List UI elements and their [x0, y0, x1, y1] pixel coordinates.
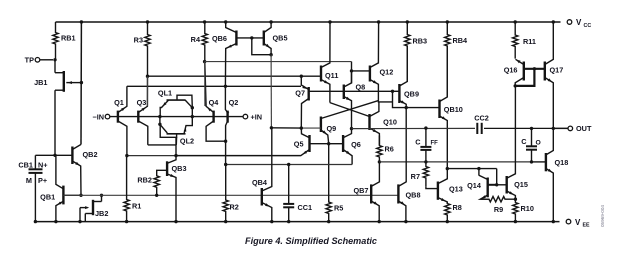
- svg-text:RB4: RB4: [453, 36, 469, 45]
- wire Q16 diode link: [514, 69, 535, 88]
- wire QB6/QB5 base: [236, 36, 263, 39]
- svg-text:R1: R1: [132, 202, 141, 211]
- node Q5/Q6 base: [327, 142, 330, 202]
- svg-text:CC1: CC1: [298, 203, 313, 212]
- transistor QB4: [252, 128, 272, 222]
- transistor QB1: [40, 155, 81, 221]
- svg-text:Q7: Q7: [295, 89, 305, 98]
- wire Q7/Q8 base bus: [309, 90, 393, 92]
- transistor Q1: [114, 86, 127, 155]
- svg-text:RB3: RB3: [413, 37, 428, 46]
- svg-text:R8: R8: [453, 203, 462, 212]
- svg-text:JB2: JB2: [95, 209, 108, 218]
- transistor Q16: [504, 59, 524, 86]
- transistor Q2: [225, 86, 238, 164]
- wire bias bus y195: [63, 194, 398, 196]
- transistor QB5: [264, 22, 288, 55]
- svg-text:R2: R2: [230, 203, 239, 212]
- svg-text:Q11: Q11: [325, 71, 338, 80]
- capacitor CC1: [283, 165, 312, 222]
- svg-text:C: C: [521, 137, 527, 146]
- node R6 bottom: [378, 160, 381, 181]
- wire Q9 base: [301, 127, 321, 129]
- wire VEE rail: [35, 221, 559, 223]
- resistor RB1: [53, 22, 76, 60]
- svg-text:Q2: Q2: [229, 98, 239, 107]
- svg-text:Q18: Q18: [555, 158, 569, 167]
- node QB4 collector top: [270, 126, 302, 129]
- svg-text:TP: TP: [25, 56, 34, 65]
- transistor Q7: [295, 76, 308, 128]
- svg-text:CC2: CC2: [474, 114, 489, 123]
- wire QB5 emitter column: [270, 55, 272, 128]
- wire Q16/Q17 base: [524, 67, 545, 70]
- caption: [245, 236, 377, 246]
- svg-text:QB7: QB7: [353, 186, 368, 195]
- svg-text:Figure 4. Simplified Schematic: Figure 4. Simplified Schematic: [245, 236, 377, 246]
- svg-text:OUT: OUT: [576, 124, 592, 133]
- svg-text:Q15: Q15: [514, 180, 528, 189]
- node R10 top: [514, 198, 517, 201]
- svg-text:Q9: Q9: [327, 124, 337, 133]
- node QB2 base: [53, 154, 56, 157]
- svg-text:R6: R6: [385, 145, 394, 154]
- resistor R5: [326, 200, 343, 222]
- wire Q3 collector link: [148, 144, 177, 146]
- svg-text:R11: R11: [523, 37, 536, 46]
- transistor Q14: [467, 175, 497, 199]
- wire QB5 diode link: [252, 38, 273, 57]
- svg-text:QB1: QB1: [40, 192, 55, 201]
- svg-text:V: V: [576, 18, 582, 27]
- node mirror feed: [477, 167, 480, 176]
- node R3 bottom: [146, 75, 149, 107]
- node Q11/Q12 base: [350, 69, 353, 83]
- terminal TP: [25, 56, 57, 65]
- node bottom rail junctions: [34, 220, 555, 223]
- transistor QB6: [212, 22, 236, 86]
- svg-text:Q12: Q12: [380, 68, 394, 77]
- resistor R11: [513, 22, 536, 59]
- wire input bus: [160, 116, 245, 118]
- node QB9 emitter: [405, 106, 440, 109]
- transistor Q15: [507, 86, 528, 199]
- svg-text:QB2: QB2: [83, 150, 98, 159]
- transistor Q12: [352, 22, 394, 102]
- transistor QB10: [440, 46, 463, 169]
- resistor R9: [480, 197, 515, 215]
- transistor Q8: [344, 71, 365, 129]
- transistor QB8: [398, 108, 420, 222]
- wire comp bus y162: [379, 161, 531, 163]
- transistor QB9: [399, 46, 419, 108]
- svg-text:JB1: JB1: [34, 78, 47, 87]
- svg-text:EE: EE: [583, 223, 591, 229]
- svg-text:CC: CC: [584, 23, 592, 29]
- transistor QL1: [158, 89, 192, 117]
- terminal -IN: [92, 112, 159, 121]
- svg-text:Q13: Q13: [449, 185, 463, 194]
- node second stage out: [350, 127, 353, 130]
- resistor RB3: [405, 22, 428, 82]
- resistor R2: [223, 165, 239, 222]
- resistor R10: [513, 199, 534, 221]
- node QB1 base junction: [79, 194, 82, 197]
- svg-text:+IN: +IN: [251, 112, 263, 121]
- wire left vertical rail: [80, 22, 82, 144]
- capacitor CFF: [415, 126, 438, 163]
- resistor R7: [411, 162, 438, 189]
- svg-text:FF: FF: [431, 141, 439, 147]
- svg-text:R4: R4: [191, 35, 201, 44]
- resistor R8: [445, 202, 462, 222]
- svg-text:M: M: [26, 176, 32, 185]
- wire mirror bus y155: [125, 154, 301, 157]
- node QL1 collector: [191, 106, 194, 117]
- transistor Q13: [438, 169, 463, 204]
- svg-text:Q16: Q16: [504, 66, 518, 75]
- svg-text:R9: R9: [494, 205, 503, 214]
- svg-text:QL2: QL2: [180, 136, 194, 145]
- terminal OUT: [552, 124, 592, 133]
- svg-text:QB6: QB6: [212, 34, 227, 43]
- jfet JB1: [34, 60, 64, 156]
- transistor Q4: [205, 62, 226, 142]
- transistor Q6: [329, 129, 361, 165]
- svg-text:QL1: QL1: [158, 89, 172, 98]
- node Q2/Q4 emitter join: [224, 140, 227, 143]
- svg-text:QB8: QB8: [406, 191, 421, 200]
- svg-text:05969-004: 05969-004: [600, 205, 605, 227]
- svg-text:R10: R10: [521, 204, 534, 213]
- transistor Q11: [321, 22, 338, 103]
- svg-text:QB9: QB9: [404, 90, 419, 99]
- svg-text:Q5: Q5: [294, 140, 304, 149]
- node top rail junctions: [80, 20, 555, 23]
- transistor Q10: [370, 102, 397, 145]
- svg-text:V: V: [575, 218, 581, 227]
- wire VCC rail: [56, 21, 561, 23]
- svg-text:RB2: RB2: [137, 175, 152, 184]
- transistor Q18: [532, 128, 569, 221]
- capacitor CO: [521, 127, 541, 164]
- node Q14/Q15 base: [495, 183, 507, 186]
- node R4 bottom: [203, 60, 206, 106]
- node JB2 drain: [100, 194, 103, 197]
- svg-text:N+: N+: [38, 160, 48, 169]
- svg-text:Q14: Q14: [467, 181, 482, 190]
- wire cross slant 1: [330, 103, 370, 117]
- wire out bus: [352, 127, 569, 129]
- terminal VCC: [567, 18, 591, 29]
- svg-text:Q6: Q6: [351, 140, 361, 149]
- resistor R1: [124, 156, 141, 222]
- svg-text:Q1: Q1: [114, 98, 124, 107]
- terminal +IN: [243, 112, 262, 121]
- transistor Q5: [176, 128, 329, 156]
- transistor QB7: [353, 181, 379, 222]
- wire bus y164: [224, 163, 352, 166]
- node Q13 collector: [446, 167, 497, 185]
- svg-text:CB1: CB1: [18, 160, 33, 169]
- svg-text:Q8: Q8: [356, 83, 366, 92]
- svg-text:QB5: QB5: [273, 34, 288, 43]
- svg-text:C: C: [415, 137, 421, 146]
- svg-text:R5: R5: [334, 204, 343, 213]
- wire input emitter bus y86: [127, 85, 301, 88]
- wire Q12 base bus: [205, 62, 352, 71]
- capacitor CB1: [18, 155, 55, 221]
- wire cross slant 2: [321, 101, 379, 119]
- resistor RB4: [445, 22, 468, 97]
- svg-text:QB4: QB4: [252, 178, 268, 187]
- figure number code: [600, 205, 605, 227]
- svg-text:Q3: Q3: [137, 98, 147, 107]
- resistor R3: [134, 22, 151, 76]
- node Q7 collector: [300, 126, 303, 129]
- resistor RB2: [137, 170, 167, 197]
- wire QB9 diode link: [393, 91, 407, 107]
- node input bus left: [158, 115, 161, 126]
- wire JB1 gate: [66, 81, 83, 84]
- transistor Q17: [545, 22, 563, 128]
- node QB9 base junction: [391, 90, 400, 93]
- transistor Q9: [321, 117, 336, 144]
- resistor R6: [377, 136, 394, 162]
- transistor QL2: [160, 117, 194, 146]
- svg-text:P+: P+: [38, 176, 47, 185]
- wire Q11 base bus: [148, 75, 322, 78]
- capacitor CC2: [474, 114, 489, 135]
- svg-text:Q17: Q17: [550, 66, 564, 75]
- jfet JB2: [80, 195, 108, 221]
- svg-text:Q4: Q4: [209, 98, 220, 107]
- svg-text:R7: R7: [411, 172, 420, 181]
- node input bus right: [191, 115, 194, 118]
- svg-text:O: O: [536, 139, 541, 146]
- svg-text:RB1: RB1: [61, 34, 76, 43]
- terminal VEE: [566, 218, 590, 229]
- svg-text:R3: R3: [134, 36, 143, 45]
- svg-text:QB3: QB3: [172, 164, 187, 173]
- svg-text:QB10: QB10: [444, 105, 463, 114]
- transistor QB2: [55, 144, 98, 195]
- resistor R4: [191, 22, 208, 62]
- svg-text:Q10: Q10: [383, 118, 397, 127]
- transistor QB3: [167, 137, 186, 221]
- transistor Q3: [137, 76, 148, 145]
- svg-text:−IN: −IN: [92, 112, 104, 121]
